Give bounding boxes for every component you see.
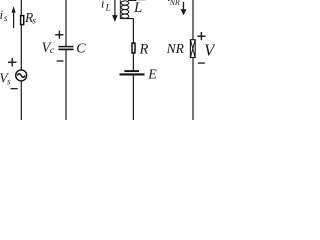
svg-text:L: L (133, 0, 142, 16)
current arrow i_L (112, 0, 118, 22)
svg-text:V: V (204, 41, 215, 60)
wire: branch 1 top segment (20, 0, 22, 15)
minus sign of V (198, 62, 205, 64)
svg-text:NR: NR (169, 0, 180, 7)
battery E (120, 71, 145, 74)
current arrow i_NR (181, 2, 187, 15)
wire: branch 2 top segment (65, 0, 67, 46)
minus sign of Vc (57, 60, 64, 62)
resistor Rs (21, 16, 24, 25)
current arrow i_s (12, 6, 16, 28)
svg-text:E: E (147, 68, 157, 83)
resistor R (132, 43, 135, 53)
svg-text:L: L (105, 4, 111, 14)
label Vs (0, 71, 11, 88)
svg-text:s: s (4, 14, 8, 24)
inductor L coil (120, 0, 129, 18)
wire: branch 3 middle segment (132, 54, 134, 71)
label i_NR (167, 0, 180, 7)
plus sign of V (197, 32, 205, 40)
wire: top nub at branch 3 (128, 0, 146, 1)
label i_L (101, 0, 111, 14)
wire: jog from coil to branch 3 (120, 18, 133, 20)
capacitor C (58, 47, 73, 50)
label Vc (42, 40, 55, 56)
plus sign of Vc (55, 31, 63, 39)
label Rs (24, 10, 36, 26)
wire: branch 1 middle segment (20, 25, 22, 71)
ac voltage source Vs (16, 70, 27, 81)
nonlinear resistor NR box (190, 40, 195, 58)
svg-text:s: s (32, 16, 36, 26)
svg-text:R: R (139, 42, 149, 58)
svg-text:NR: NR (166, 41, 185, 56)
svg-text:s: s (7, 77, 11, 87)
wire: branch 2 bottom segment (65, 50, 67, 120)
svg-text:i: i (101, 0, 105, 11)
wire: branch 3 bottom segment (132, 75, 134, 120)
plus sign of Vs (8, 58, 17, 67)
wire: branch 4 top segment (192, 0, 194, 39)
minus sign of Vs (11, 88, 18, 90)
svg-text:C: C (76, 42, 86, 57)
wire: branch 3 upper segment (132, 19, 134, 43)
wire: branch 1 bottom segment (20, 81, 22, 120)
label i_s (0, 8, 8, 24)
wire: branch 4 bottom segment (192, 57, 194, 120)
